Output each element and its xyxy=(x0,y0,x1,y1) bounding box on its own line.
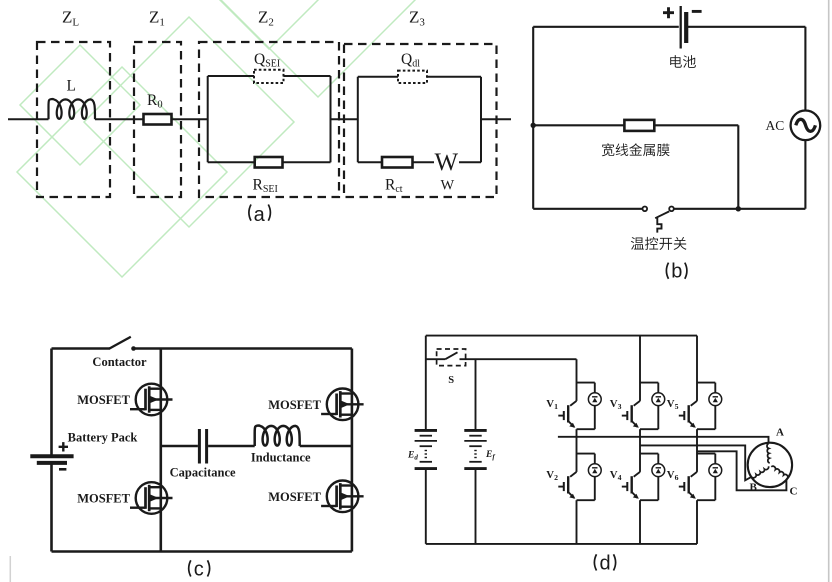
transistor V4 (IGBT with diode) xyxy=(622,454,665,501)
junction node: bottom-right of middle branch xyxy=(736,206,741,211)
battery 电池 plates xyxy=(681,6,687,49)
wire: (b) left side xyxy=(532,27,534,209)
wire: (c) bottom xyxy=(52,550,352,553)
wire: Z2 top branch right xyxy=(284,75,331,77)
svg-text:Capacitance: Capacitance xyxy=(170,466,236,480)
inductor Inductance xyxy=(255,426,300,447)
wire: (d) left side lower xyxy=(425,469,427,544)
MOSFET Q3 (top-right) xyxy=(321,389,364,421)
caption (c) xyxy=(189,558,210,580)
switch S dashed box xyxy=(437,349,466,366)
battery polarity - xyxy=(692,10,702,13)
svg-text:L: L xyxy=(67,78,76,95)
svg-text:S: S xyxy=(448,375,454,386)
wire: inductor to R0 xyxy=(95,118,144,120)
impedance block Z3 dashed box xyxy=(344,44,497,197)
transistor V1 (IGBT with diode) xyxy=(558,383,601,430)
svg-text:Inductance: Inductance xyxy=(251,451,311,465)
resistor 宽线金属膜 xyxy=(624,120,654,131)
wire: phase A line xyxy=(558,437,769,443)
svg-text:Battery Pack: Battery Pack xyxy=(68,431,138,445)
wire: (c) middle vertical xyxy=(160,349,163,552)
wire: capacitor branch left xyxy=(161,445,198,448)
label 温控开关 xyxy=(631,237,687,250)
contactor switch lever xyxy=(110,337,131,349)
wire: phase C line xyxy=(697,451,786,490)
svg-text:AC: AC xyxy=(766,118,785,133)
wire: switch S branch right xyxy=(460,358,577,360)
wire: (c) top right of contactor xyxy=(135,347,352,350)
node: Z2 right bar xyxy=(330,76,332,162)
wire: Warburg W to Z3 right bar xyxy=(459,161,481,163)
capacitor Qdl (CPE, dashed box) xyxy=(398,71,427,83)
impedance block ZL dashed box xyxy=(37,42,110,197)
thermal switch 温控开关 xyxy=(643,207,674,233)
svg-text:MOSFET: MOSFET xyxy=(77,492,130,506)
MOSFET Q4 (bottom-right) xyxy=(321,481,364,513)
MOSFET Q2 (bottom-left) xyxy=(130,482,173,514)
AC source circle xyxy=(791,111,821,141)
wire: middle branch right xyxy=(654,124,738,126)
svg-text:B: B xyxy=(750,482,758,494)
wire: Rct to Warburg W xyxy=(413,161,435,163)
battery Ed xyxy=(415,430,437,468)
wire: (b) bottom right xyxy=(674,208,806,210)
node: Z3 left bar xyxy=(357,77,359,163)
MOSFET Q1 (top-left) xyxy=(130,384,173,416)
wire: (b) top left xyxy=(533,26,679,28)
wire: Ef top lead xyxy=(475,359,477,430)
junction node: left-middle xyxy=(531,123,536,128)
wire: switch S branch left xyxy=(426,358,446,360)
wire: capacitor to inductor xyxy=(208,445,255,448)
contactor hinge dot xyxy=(131,346,136,351)
wire: Z3 top branch right xyxy=(427,76,481,78)
wire: R0 to Z2 block xyxy=(172,118,208,120)
wire: middle branch drop xyxy=(737,125,739,209)
svg-text:a: a xyxy=(254,204,266,226)
svg-text:W: W xyxy=(441,178,455,194)
impedance block Z2 dashed box xyxy=(199,42,339,197)
wire: (b) middle branch xyxy=(533,124,624,126)
wire: (c) top left to contactor xyxy=(52,347,111,350)
node: Z3 right bar xyxy=(480,77,482,163)
transistor V3 (IGBT with diode) xyxy=(622,383,665,430)
wire: (d) bottom bus xyxy=(426,543,697,545)
wire: Z2 to Z3 xyxy=(331,118,358,120)
battery polarity + xyxy=(663,7,674,18)
battery pack plates xyxy=(30,456,73,463)
switch S lever xyxy=(445,352,457,359)
svg-text:MOSFET: MOSFET xyxy=(268,490,321,504)
svg-text:Contactor: Contactor xyxy=(92,355,147,369)
svg-text:b: b xyxy=(671,261,682,283)
resistor RSEI xyxy=(255,157,283,168)
transistor V5 (IGBT with diode) xyxy=(679,383,722,430)
wire: leg 1 upper xyxy=(576,359,578,544)
svg-text:MOSFET: MOSFET xyxy=(268,398,321,412)
wire: (a) main line right of Z3 xyxy=(481,118,511,120)
wire: (b) bottom left xyxy=(533,208,642,210)
wire: (b) right side lower xyxy=(804,140,806,209)
svg-text:A: A xyxy=(776,427,784,439)
svg-text:C: C xyxy=(790,486,798,498)
svg-text:MOSFET: MOSFET xyxy=(77,393,130,407)
wire: Z2 bottom branch right xyxy=(283,161,331,163)
wire: (c) right side xyxy=(351,349,354,552)
battery - sign xyxy=(59,468,66,471)
battery + sign xyxy=(59,442,68,451)
inductor L xyxy=(48,99,95,119)
wire: Z2 bottom branch left xyxy=(208,161,255,163)
battery Ef xyxy=(464,430,486,468)
wire: Z3 bottom branch left xyxy=(358,161,382,163)
wire: Z3 top branch left xyxy=(358,76,398,78)
caption (b) xyxy=(666,261,687,283)
wire: (d) top bus xyxy=(426,335,697,337)
wire: phase B line xyxy=(640,445,752,480)
wire: (d) left side upper xyxy=(425,336,427,431)
caption (d) xyxy=(594,552,615,574)
wire: Z2 top branch left xyxy=(208,75,254,77)
wire: (c) left side upper xyxy=(50,349,53,455)
wire: Ef bottom lead xyxy=(475,469,477,544)
svg-text:c: c xyxy=(194,558,204,580)
transistor V6 (IGBT with diode) xyxy=(679,454,722,501)
capacitor QSEI (CPE, dashed box) xyxy=(254,70,284,83)
transistor V2 (IGBT with diode) xyxy=(558,454,601,501)
resistor Rct xyxy=(382,157,413,168)
impedance block Z1 dashed box xyxy=(134,42,181,197)
motor M (3-phase) xyxy=(748,443,792,487)
wire: leg 2 upper xyxy=(639,336,641,544)
wire: (a) main line left of inductor xyxy=(8,118,49,120)
svg-text:W: W xyxy=(435,149,459,176)
wire: (b) right side upper xyxy=(804,27,806,111)
node: Z2 left bar xyxy=(207,76,209,162)
label 电池 xyxy=(670,55,696,68)
capacitor Capacitance plates xyxy=(199,429,206,464)
label 宽线金属膜 xyxy=(602,143,670,156)
wire: (b) top right xyxy=(687,26,806,28)
wire: (c) left side lower xyxy=(50,464,53,552)
wire: inductor to right side xyxy=(300,445,352,448)
svg-text:d: d xyxy=(600,552,611,574)
wire: leg 3 upper xyxy=(696,336,698,544)
caption (a) xyxy=(249,204,271,226)
resistor R0 xyxy=(144,114,172,125)
